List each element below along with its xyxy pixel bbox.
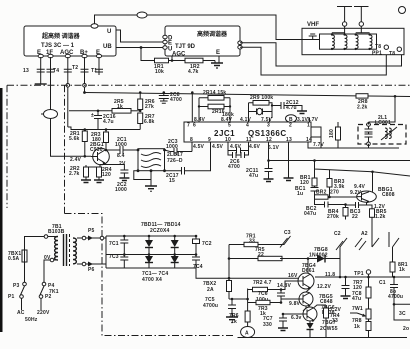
svg-text:6.1V: 6.1V — [268, 145, 280, 151]
pin14 wire — [308, 142, 399, 148]
2C17 cap — [165, 167, 185, 175]
UHF tuner box TJS 3C-1 — [24, 26, 116, 56]
svg-text:27k: 27k — [145, 104, 154, 110]
UHF pin 1F wire — [50, 57, 52, 110]
ground 1R2 — [215, 56, 219, 63]
resistor 1R1 10k — [155, 58, 169, 63]
svg-text:2.4V: 2.4V — [70, 157, 82, 163]
capacitor 2C8 4700 — [159, 93, 169, 104]
ground stub BR4 — [345, 219, 347, 221]
capacitor 7C1 — [120, 236, 128, 255]
capacitor 2C12 4.7u — [272, 102, 302, 111]
base network 7R2 — [268, 281, 299, 290]
svg-text:±: ± — [91, 113, 94, 119]
resistor BR4 270k — [345, 205, 347, 208]
svg-text:C3: C3 — [284, 230, 291, 236]
secondary bottom wire P6 — [77, 263, 82, 265]
shield jog to power section — [65, 214, 236, 336]
svg-text:33: 33 — [249, 239, 255, 245]
svg-text:TJT 9D: TJT 9D — [175, 44, 196, 50]
12V rail — [315, 276, 410, 278]
svg-text:2CW55: 2CW55 — [320, 326, 338, 332]
svg-text:C2: C2 — [334, 231, 341, 237]
AGC bias line — [68, 127, 140, 130]
capacitor BC3 22 — [346, 202, 367, 208]
svg-text:4700 X4: 4700 X4 — [142, 277, 162, 283]
terminal at UHF box top — [91, 24, 98, 28]
VHF inner ground — [296, 34, 320, 40]
svg-text:4.7u: 4.7u — [103, 119, 114, 125]
svg-text:13: 13 — [23, 68, 29, 74]
resistor 7R5 22 — [258, 256, 282, 260]
svg-text:4.6V: 4.6V — [249, 144, 261, 150]
resistor 7R7 120 — [368, 277, 370, 287]
resistor 7R3 1k — [270, 302, 281, 304]
shield left vertical — [6, 85, 8, 208]
svg-text:C930: C930 — [90, 147, 103, 153]
raw line to 7BG4 — [229, 277, 298, 279]
svg-text:1k: 1k — [399, 267, 405, 273]
line A 8.4V rail — [269, 160, 410, 162]
svg-text:高频调谐器: 高频调谐器 — [197, 30, 228, 38]
svg-text:33: 33 — [332, 318, 338, 324]
pin 7 Vcc riser — [191, 93, 193, 123]
UHF pin E wire — [40, 57, 42, 84]
resistor 1R2 4.7k — [185, 58, 203, 63]
diode 7BD11 — [148, 236, 150, 255]
IC top pin stubs — [199, 118, 310, 122]
capacitor 2C16 4.7u — [94, 111, 102, 130]
svg-text:1.2k: 1.2k — [375, 214, 386, 220]
secondary — [73, 238, 76, 264]
supply line L2 — [228, 245, 230, 281]
drop to 2L1 — [369, 96, 396, 122]
diode 7BD12 — [148, 255, 150, 257]
switch P4/P2 7K1 — [42, 282, 46, 286]
svg-text:47u: 47u — [352, 296, 361, 302]
svg-text:PP1: PP1 — [372, 51, 382, 57]
svg-text:1000: 1000 — [115, 187, 127, 193]
shield dash-dot horizontal main — [7, 84, 410, 86]
top interconnect wire — [95, 15, 297, 40]
svg-text:1N4002: 1N4002 — [309, 253, 328, 259]
svg-text:4.7k: 4.7k — [188, 69, 199, 75]
VHF coil box — [302, 22, 404, 55]
capacitor 2C1 1000 — [120, 146, 138, 154]
pin13 wire — [288, 142, 290, 178]
transistor 7BG4 D661 — [298, 263, 316, 290]
svg-text:7C1: 7C1 — [109, 241, 119, 247]
svg-text:3.9k: 3.9k — [334, 184, 345, 190]
svg-text:22: 22 — [258, 252, 264, 258]
resistor 2R2 2.7k — [86, 163, 104, 167]
net label B — [286, 115, 297, 123]
svg-text:1u: 1u — [297, 191, 303, 197]
svg-text:330: 330 — [263, 322, 272, 328]
svg-text:270: 270 — [330, 190, 339, 196]
wire antenna to 2BG1 base — [51, 119, 92, 157]
svg-text:1k: 1k — [117, 104, 123, 110]
svg-text:7C3: 7C3 — [109, 254, 119, 260]
coil 4 — [370, 35, 372, 49]
diode 7BD13 — [174, 236, 176, 255]
svg-text:TP1: TP1 — [354, 271, 364, 277]
svg-text:5.6k: 5.6k — [69, 136, 80, 142]
capacitor BC2 047u — [315, 199, 346, 207]
svg-text:BR2: BR2 — [316, 190, 327, 196]
pin8 wire — [191, 142, 193, 152]
svg-text:3C: 3C — [399, 311, 406, 317]
svg-text:14.8V: 14.8V — [277, 283, 292, 289]
UHF pin exit bushings — [38, 54, 43, 58]
svg-text:VHF: VHF — [307, 22, 319, 28]
capacitor 2C2 1000 — [100, 165, 124, 171]
svg-text:726–D: 726–D — [167, 158, 183, 164]
wire UHF UB to TJT U — [116, 47, 163, 49]
feedthrough cap T2 — [64, 69, 72, 72]
resistor 2R5 1k — [112, 109, 131, 114]
B+ rail — [83, 91, 86, 94]
pin9 wire — [185, 142, 211, 171]
resistor 2R8 2.2k in B+ rail — [356, 94, 368, 98]
svg-text:3: 3 — [267, 123, 270, 129]
page scan edge — [0, 88, 3, 332]
svg-text:12.2V: 12.2V — [317, 284, 332, 290]
power transformer 7B1 — [48, 224, 76, 266]
svg-text:7: 7 — [187, 123, 190, 129]
top right corner terminal — [399, 7, 406, 14]
svg-text:7R2: 7R2 — [253, 280, 263, 286]
AGC line to 2R5 node — [69, 110, 112, 112]
pin10 pin11 caps 2C6 — [228, 142, 249, 151]
svg-text:2.2k: 2.2k — [357, 105, 368, 111]
svg-text:7.7V: 7.7V — [313, 142, 325, 148]
svg-text:220V: 220V — [37, 310, 50, 316]
svg-text:1000: 1000 — [115, 142, 127, 148]
feedthrough on top wire — [137, 12, 147, 18]
supply node vertical — [247, 289, 249, 300]
potentiometer 7W1 — [368, 306, 370, 309]
svg-text:9.2V: 9.2V — [350, 190, 362, 196]
svg-text:047u: 047u — [304, 211, 316, 217]
UHF pin E2 wire — [95, 57, 103, 75]
TJT AGC pin wire — [171, 56, 173, 61]
svg-text:E: E — [216, 50, 220, 56]
base line 7BG5 — [281, 299, 299, 303]
wire diode to 12V rail — [339, 259, 341, 278]
svg-text:UB: UB — [103, 44, 112, 50]
feedthrough cap T4 — [47, 69, 55, 72]
collector wire to line B — [372, 172, 374, 192]
test point TP1 — [368, 274, 370, 277]
transistor 2BG1 D930 — [90, 142, 109, 165]
capacitor BC1 1u — [311, 186, 319, 197]
svg-text:0.5A: 0.5A — [8, 256, 20, 262]
svg-text:15: 15 — [169, 178, 175, 184]
capacitor 7C2 — [192, 236, 200, 255]
primary top wire — [25, 237, 59, 251]
crossing circle on shield — [66, 84, 70, 88]
capacitor 7C5 4700u — [228, 299, 236, 317]
coil 3 — [356, 35, 358, 49]
svg-text:16V: 16V — [288, 273, 298, 279]
svg-text:4.5V: 4.5V — [212, 144, 224, 150]
pin12 wire + cap 2C11 — [265, 142, 273, 179]
svg-text:T8: T8 — [389, 51, 395, 57]
diode 7BD14 — [174, 255, 176, 257]
cap 01 — [249, 109, 273, 115]
right edge partial unit — [394, 290, 410, 320]
transistor BBG1 C808 — [357, 187, 395, 203]
wire under 2L1 — [311, 127, 321, 148]
svg-text:0V: 0V — [44, 255, 51, 261]
svg-text:P6: P6 — [88, 267, 95, 273]
resistor 7R6 1k — [245, 311, 250, 322]
resistor 7R8 1k — [366, 322, 371, 331]
ammeter A — [241, 327, 255, 338]
shield mid vertical — [64, 85, 66, 213]
UHF pin AGC wire — [67, 57, 69, 127]
antenna connector — [44, 110, 58, 119]
svg-text:14: 14 — [306, 137, 312, 143]
capacitor 7C4 — [192, 255, 200, 269]
svg-text:4700: 4700 — [170, 97, 182, 103]
coil unit 2L1 LC001 — [358, 115, 406, 146]
svg-text:P2: P2 — [45, 294, 52, 300]
svg-text:6.3v: 6.3v — [291, 315, 302, 321]
svg-text:4.7: 4.7 — [264, 280, 272, 286]
svg-text:7W1: 7W1 — [352, 306, 363, 312]
svg-text:2.7k: 2.7k — [69, 171, 80, 177]
secondary top wire P5 — [77, 237, 82, 239]
core — [64, 234, 67, 266]
secondary B+ riser — [100, 236, 104, 240]
svg-text:P1: P1 — [8, 294, 15, 300]
wire junction to 1R1 line — [141, 48, 155, 61]
resistor 2R4 120 — [99, 165, 100, 168]
coil 2 — [345, 35, 347, 49]
svg-text:4.6V: 4.6V — [230, 144, 242, 150]
resistor 2R7 6.8k — [138, 113, 143, 124]
fuse 7BX1 0.5A — [22, 250, 27, 262]
svg-text:9.8V: 9.8V — [289, 301, 301, 307]
resistor BR5 1.2k — [370, 209, 375, 218]
wire fuse to node — [229, 298, 248, 300]
svg-text:TJS 3C — 1: TJS 3C — 1 — [41, 43, 75, 49]
svg-text:7C2: 7C2 — [202, 241, 212, 247]
ground bar pin E — [35, 83, 47, 85]
capacitor 7C3 — [110, 255, 196, 269]
UHF pin B+ wire — [84, 57, 86, 93]
coil bar 1 — [332, 33, 345, 35]
wire UHF U to TJT E — [116, 30, 163, 42]
svg-text:1000: 1000 — [166, 144, 178, 150]
bridge bottom rail — [106, 236, 175, 268]
diode 7BG8 1N4002 — [317, 255, 325, 263]
base line 7BG6 + 6.3v — [283, 313, 303, 315]
resistor 2R6 27k — [139, 93, 141, 100]
svg-text:2A: 2A — [207, 287, 214, 293]
coil 1 — [332, 35, 334, 49]
antenna terminal 2 — [354, 7, 369, 23]
svg-text:6.8k: 6.8k — [144, 119, 155, 125]
bridge top rail — [106, 235, 196, 237]
primary bottom wire — [44, 260, 58, 282]
svg-text:AC: AC — [17, 310, 25, 316]
node at 2R6 — [139, 110, 142, 113]
capacitor 2C3 1000 — [165, 148, 193, 155]
resistor 2R9 100k — [249, 103, 273, 118]
svg-text:4700u: 4700u — [388, 294, 403, 300]
filter bottom loop — [134, 171, 151, 186]
svg-text:1k: 1k — [231, 319, 237, 325]
transistor 7BG5 C848 — [299, 292, 333, 307]
resistor BR3 3.9k — [329, 170, 331, 179]
VHF coil junction dots — [331, 33, 333, 35]
switch P3/P1 — [23, 282, 27, 286]
capacitor 7C7 330 — [279, 314, 287, 328]
wire TJT right pin1 to VHF — [240, 43, 402, 66]
svg-text:C808: C808 — [382, 192, 395, 198]
svg-text:C1: C1 — [379, 280, 386, 286]
resistor 2R3 180 — [105, 130, 107, 133]
bottom bus solid — [238, 337, 408, 339]
svg-text:2o: 2o — [403, 326, 409, 332]
IC 2JC1 QS1366C — [184, 122, 311, 142]
crossing circle on shield B+ — [83, 84, 87, 88]
svg-text:4: 4 — [246, 123, 249, 129]
svg-text:超高频 调谐器: 超高频 调谐器 — [41, 32, 81, 40]
svg-text:4.5V: 4.5V — [193, 144, 205, 150]
bridge mid rail — [106, 254, 196, 256]
svg-text:4700u: 4700u — [203, 303, 218, 309]
transistor 7BG6 D838 — [303, 305, 335, 322]
SAW filter 2LB17 726-D — [137, 149, 183, 173]
svg-text:1: 1 — [307, 123, 310, 129]
svg-text:P5: P5 — [88, 228, 95, 234]
svg-text:2R9 100k: 2R9 100k — [250, 95, 273, 101]
resistor 2R1 5.6k — [84, 130, 86, 132]
svg-text:6: 6 — [193, 123, 196, 129]
VHF tuner box TJT 9D — [165, 26, 240, 58]
TJT pin bushings — [163, 35, 167, 39]
svg-text:AGC: AGC — [172, 52, 186, 58]
emitter network — [367, 202, 373, 209]
fuse 7BX2 2A — [227, 281, 232, 292]
svg-text:2CZ0X4: 2CZ0X4 — [150, 228, 170, 234]
primary — [55, 237, 58, 261]
svg-text:T2: T2 — [72, 65, 78, 71]
svg-text:A2: A2 — [361, 231, 368, 237]
svg-text:270k: 270k — [327, 214, 339, 220]
svg-text:2R14 15k: 2R14 15k — [203, 90, 226, 96]
svg-text:22: 22 — [352, 214, 358, 220]
antenna terminal 1 — [337, 7, 352, 23]
wire TJT right pin2 to VHF — [240, 47, 386, 75]
feedthrough cap T1 — [81, 69, 89, 72]
svg-text:7C4: 7C4 — [193, 264, 203, 270]
line L1 to C3 — [229, 244, 244, 246]
svg-text:A: A — [245, 331, 249, 337]
svg-text:50Hz: 50Hz — [25, 317, 38, 323]
line B — [315, 161, 410, 177]
svg-text:4.7u: 4.7u — [286, 105, 297, 111]
resistor 8R1 1k — [392, 247, 394, 262]
svg-text:T8: T8 — [375, 44, 381, 50]
resistor 2R16 180k — [199, 106, 230, 108]
svg-text:U: U — [107, 29, 111, 35]
svg-text:1k: 1k — [354, 324, 360, 330]
capacitor 8C1 4700u — [390, 277, 398, 290]
svg-text:120: 120 — [102, 172, 111, 178]
svg-text:P3: P3 — [13, 283, 20, 289]
svg-text:T4: T4 — [53, 68, 59, 74]
resistor 2R10 180 vertical — [337, 122, 339, 127]
resistor 7R4 33 — [314, 305, 326, 308]
bridge output wire — [196, 268, 229, 278]
resistor BR1 120 — [314, 169, 316, 178]
svg-text:10k: 10k — [155, 69, 164, 75]
zener 7BG7 2CW55 — [309, 321, 311, 323]
svg-text:2: 2 — [289, 123, 292, 129]
capacitor 7C8 47u — [342, 277, 350, 296]
capacitor 7C6 100u — [277, 290, 285, 303]
collector node wire — [105, 149, 120, 151]
resistor 2R14 15k — [199, 98, 230, 118]
svg-text:5: 5 — [228, 123, 231, 129]
feedthrough cap T3 — [37, 69, 45, 72]
svg-text:B103B: B103B — [48, 229, 65, 235]
svg-text:47u: 47u — [249, 173, 258, 179]
resistor BR2 270 in base line — [315, 195, 329, 199]
svg-text:4700: 4700 — [228, 164, 240, 170]
svg-text:180: 180 — [329, 129, 335, 138]
